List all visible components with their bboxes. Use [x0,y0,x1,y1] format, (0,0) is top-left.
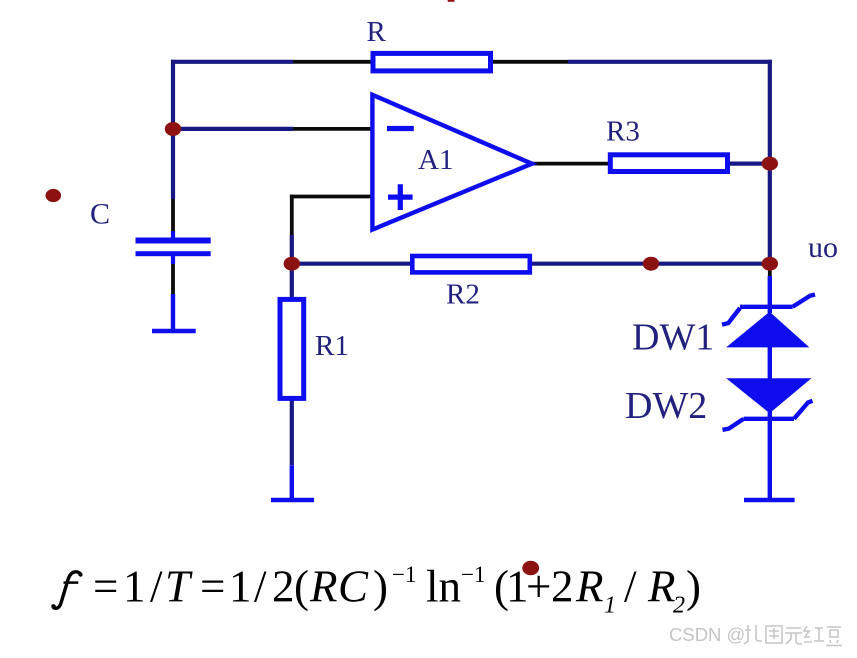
svg-text:1: 1 [123,562,146,612]
capacitor C bottom plate [136,251,211,256]
wire: output black segment to R3 [531,162,610,166]
svg-text:CSDN @: CSDN @ [669,624,745,645]
svg-text:DW2: DW2 [625,385,707,427]
wire: feedback row right of R2 [530,262,770,266]
svg-text:1: 1 [604,593,616,619]
wire: blue between DW1 and DW2 [768,345,772,380]
ground bar under R1 [271,498,314,503]
wire: capacitor bottom black segment [171,264,175,294]
wire: inverting input, black segment [293,127,372,131]
resistor R3 [610,155,727,172]
op-amp minus input symbol [387,126,414,131]
resistor R2 [412,256,530,272]
svg-text:uo: uo [808,231,838,264]
watermark CJK glyphs (hand drawn) [744,625,842,646]
formula f = 1/T = 1/2(RC)^-1 ln^-1 (1+2R1/R2) [52,562,701,619]
ground bar under DW2 [744,498,795,503]
svg-text:C: C [90,197,110,230]
svg-text:=: = [93,562,118,612]
svg-text:T: T [165,562,193,612]
wire: R1 bottom navy segment [290,399,294,465]
wire: capacitor ground blue segment [171,294,175,331]
wire: top feedback, black segment into R [293,60,372,64]
svg-text:R: R [367,16,387,48]
wire: top feedback, navy segment to right rail [568,60,772,64]
glyph wu [785,628,802,644]
svg-text:ln: ln [426,562,461,612]
wire: left rail vertical black segment [171,199,175,231]
wire: left rail blue stub into capacitor [171,231,175,238]
svg-text:1: 1 [229,562,252,612]
svg-text:R2: R2 [446,279,480,311]
svg-text:/: / [150,562,163,612]
capacitor C top plate [136,238,211,244]
clipped red mark at top edge [448,0,455,2]
node dot over plus in formula [522,561,539,576]
node at R1 / R2 row [284,257,300,271]
resistor R1 [280,299,304,398]
svg-text:R: R [309,562,338,612]
svg-text:−1: −1 [461,562,485,587]
zener DW1 body [726,312,809,348]
svg-text:R: R [575,562,604,612]
svg-text:/: / [624,562,637,612]
svg-text:): ) [373,562,388,612]
wire: top feedback, left navy segment [171,60,293,64]
svg-text:R3: R3 [606,116,640,148]
svg-text:/: / [254,562,267,612]
ground bar under capacitor [152,329,196,334]
wire: left rail vertical navy [171,60,175,199]
svg-text:−1: −1 [392,562,416,587]
svg-text:C: C [338,562,369,612]
glyph guo [766,626,782,643]
wire: non-inverting drop, navy segment [290,235,294,264]
node at inverting input / left rail [165,122,181,136]
glyph bei [744,625,762,644]
svg-text:2: 2 [673,593,685,619]
zener DW2 cathode bar [723,401,813,430]
glyph hong [804,626,824,642]
stray node dot near C [46,189,62,202]
wire: inverting input, navy segment [173,127,293,131]
wire: feedback row y=263.7 left of R2 [292,262,412,266]
wire: capacitor bottom blue stub [171,256,175,264]
node uo at right rail [762,257,778,271]
svg-text:A1: A1 [418,144,453,176]
zener DW2 body [726,378,811,413]
zener DW1 cathode bar [722,295,815,325]
node at R3 / right rail [762,157,778,171]
wire: R1 ground blue segment [290,465,294,500]
wire: top feedback, black segment after R [491,60,568,64]
wire: R3 to right rail navy [728,162,770,166]
glyph dou [826,627,842,646]
svg-text:=: = [200,562,225,612]
svg-text:2: 2 [272,562,295,612]
svg-text:2: 2 [551,562,574,612]
wire: right rail blue into DW1 [768,276,772,313]
wire: right rail vertical navy [768,60,772,266]
svg-text:R1: R1 [315,330,349,362]
wire: blue below DW2 to ground [768,411,772,500]
svg-text:): ) [686,562,701,612]
svg-text:R: R [647,562,676,612]
svg-text:DW1: DW1 [632,317,714,359]
wire: right rail black stub below uo node [768,266,772,276]
op-amp plus input symbol [388,184,413,210]
svg-text:(: ( [294,562,309,612]
wire: node down to R1 [290,264,294,299]
node mid feedback row [643,257,659,271]
wire: non-inverting drop, black segment [290,195,294,235]
op-amp A1 [372,95,532,230]
wire: non-inverting input, black horizontal [290,195,372,199]
resistor R [373,53,491,71]
